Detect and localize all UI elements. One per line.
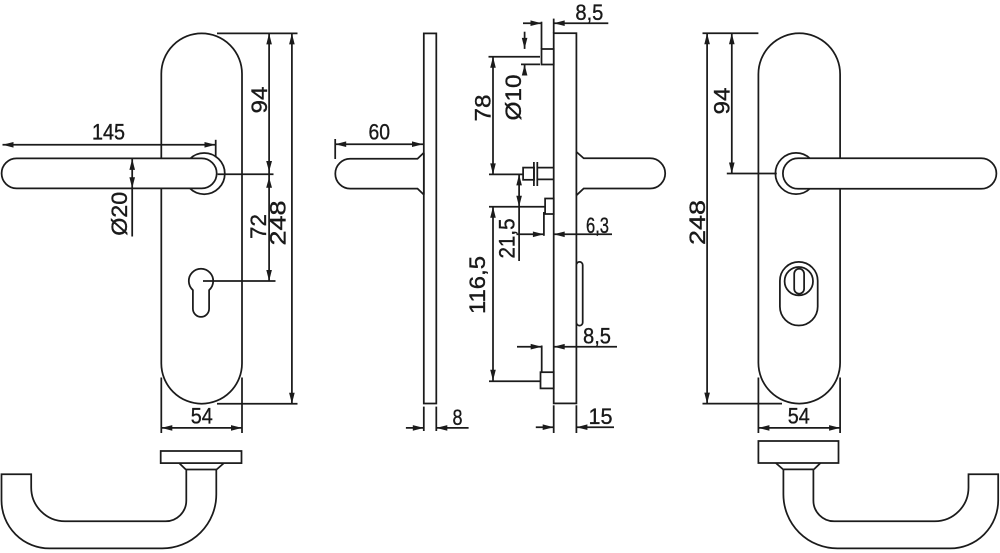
extension line bottom screw top corner xyxy=(541,346,543,372)
extension line spindle centre xyxy=(489,173,523,175)
spindle washer xyxy=(533,162,535,186)
rose circle behind lever xyxy=(184,153,225,194)
euro profile cylinder hole xyxy=(189,269,213,317)
svg-text:Ø20: Ø20 xyxy=(107,192,132,236)
lever side view with neck flange xyxy=(335,153,424,195)
svg-text:145: 145 xyxy=(92,119,125,144)
rose plate edge view (interior bottom) xyxy=(161,451,242,463)
cylinder cover profile xyxy=(576,262,582,326)
dimension 8.5 top screw projection xyxy=(541,22,543,49)
dimension 21.5 spindle to pin xyxy=(518,174,520,261)
cylinder ring xyxy=(785,267,813,295)
svg-text:Ø10: Ø10 xyxy=(501,75,526,121)
dimension 94 exterior xyxy=(731,33,733,173)
svg-text:8: 8 xyxy=(453,405,463,430)
dimension 6.3 pin projection xyxy=(517,233,544,235)
svg-text:54: 54 xyxy=(191,404,213,429)
svg-text:248: 248 xyxy=(266,201,291,246)
spindle shaft xyxy=(537,167,554,169)
neck flange (exterior bottom view) xyxy=(814,463,821,469)
rose circle behind lever (exterior) xyxy=(775,153,816,194)
dimension 54 plate width xyxy=(160,378,162,434)
extension line cylinder centre xyxy=(203,280,276,282)
svg-text:15: 15 xyxy=(589,404,613,429)
svg-text:60: 60 xyxy=(369,119,391,144)
dimension 145 lever length xyxy=(3,144,216,146)
extension line exterior lever centre xyxy=(727,173,777,175)
extension line top of exterior plate xyxy=(703,32,759,34)
rose plate edge view (exterior bottom) xyxy=(758,441,838,463)
lever side view exterior with neck flange xyxy=(576,152,665,195)
bottom fixing screw boss xyxy=(541,372,554,388)
dimension 116.5 pin to bottom screw xyxy=(492,207,494,381)
security escutcheon oval xyxy=(780,262,818,326)
extension line bottom of plate xyxy=(217,403,298,405)
extension line pin bottom corner xyxy=(543,212,545,236)
dimension 248 exterior xyxy=(706,33,708,403)
backplate front view (exterior) xyxy=(758,33,840,403)
extension line pin centre xyxy=(489,206,545,208)
backplate front view (interior) xyxy=(161,33,242,403)
backplate side view (exterior, 15mm) xyxy=(554,33,577,403)
dimension 78 screw to spindle xyxy=(492,57,494,175)
dimension 72 lever to cylinder xyxy=(268,174,270,281)
svg-text:78: 78 xyxy=(470,95,495,122)
dimension diameter 10 screw xyxy=(524,32,526,49)
neck flange (interior bottom view) xyxy=(179,463,186,469)
extension line lever centre xyxy=(218,173,274,175)
extension line screw centre xyxy=(489,56,541,58)
svg-text:8,5: 8,5 xyxy=(575,0,603,25)
backplate side view (interior, 8mm) xyxy=(424,33,437,403)
dimension diameter 20 lever xyxy=(131,159,133,237)
svg-text:54: 54 xyxy=(788,404,810,429)
svg-text:6,3: 6,3 xyxy=(586,213,609,238)
lever grip seen from below (exterior) xyxy=(783,470,998,549)
lever grip seen from below (interior) xyxy=(1,470,216,549)
cylinder keyway slot xyxy=(794,269,804,294)
svg-text:8,5: 8,5 xyxy=(583,324,611,349)
svg-text:94: 94 xyxy=(247,87,272,114)
guide pin xyxy=(545,199,554,215)
svg-text:248: 248 xyxy=(685,200,710,245)
dimension 248 plate height xyxy=(291,33,293,403)
svg-text:116,5: 116,5 xyxy=(465,256,490,314)
extension line screw bottom xyxy=(521,63,540,65)
dimension 94 top to lever xyxy=(268,33,270,174)
svg-text:21,5: 21,5 xyxy=(495,219,520,259)
dimension 8 plate thickness xyxy=(423,407,425,431)
extension line bottom of exterior plate xyxy=(703,403,783,405)
svg-text:94: 94 xyxy=(709,88,734,115)
spindle nut xyxy=(523,168,534,180)
dimension 54 exterior plate width xyxy=(757,378,759,434)
dimension 8.5 bottom screw projection xyxy=(517,346,542,348)
extension line top of plate xyxy=(217,32,298,34)
dimension 15 plate thickness xyxy=(553,405,555,433)
lever handle bar xyxy=(2,158,217,188)
dimension 60 projection xyxy=(334,139,336,159)
lever handle bar (exterior) xyxy=(783,158,997,189)
extension line bottom screw centre xyxy=(489,380,541,382)
top fixing screw boss xyxy=(542,49,554,65)
